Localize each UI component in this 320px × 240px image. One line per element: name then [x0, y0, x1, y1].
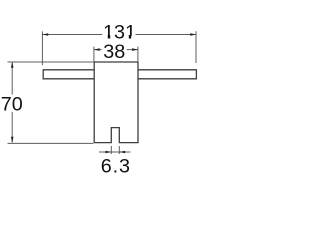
erase serif foot of last 1 — [125, 36, 135, 39]
dimension line 6.3 — [99, 151, 131, 153]
extension line left for 131 — [41, 31, 43, 65]
dimension line 131 — [42, 34, 102, 36]
arrow right of 131 — [190, 33, 196, 36]
svg-text:6.3: 6.3 — [101, 156, 131, 178]
erase serif foot of first 1 — [103, 36, 113, 39]
extension line right for 6.3 — [118, 146, 120, 154]
extension line right for 38 — [137, 47, 139, 62]
extension line top for 70 — [8, 61, 95, 63]
dimension line 70 — [11, 62, 13, 95]
arrow top of 70 — [11, 62, 14, 68]
extension line bottom for 70 — [8, 142, 94, 144]
svg-text:70: 70 — [1, 93, 23, 115]
extension line right for 131 — [195, 31, 197, 63]
extension line left for 6.3 — [110, 146, 112, 154]
arrow bottom of 70 — [11, 137, 14, 143]
arrow left of 131 — [42, 33, 48, 36]
dimension line 38 — [94, 49, 102, 51]
arrow right of 6.3 — [119, 151, 125, 154]
svg-text:38: 38 — [103, 41, 125, 63]
arrow right of 38 — [132, 48, 138, 51]
arrow left of 6.3 — [106, 151, 112, 154]
right arm bar — [138, 70, 196, 79]
left arm bar — [43, 70, 94, 79]
arrow left of 38 — [94, 48, 100, 51]
part body (center block with bottom slot) — [94, 62, 138, 143]
extension line left for 38 — [93, 47, 95, 62]
